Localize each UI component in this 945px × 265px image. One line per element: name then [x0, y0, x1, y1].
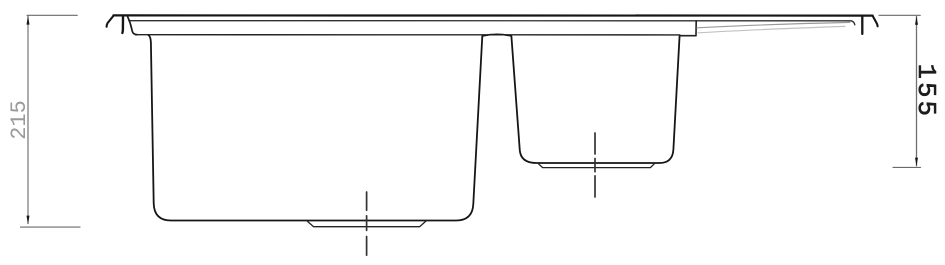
right rim downturn edge	[861, 16, 863, 34]
right rim rear lip hook	[873, 16, 878, 27]
right dimension extension line top	[879, 14, 920, 16]
left dimension line (215)	[27, 16, 29, 224]
right dimension arrow up	[915, 16, 918, 25]
drainer slope line upper	[697, 22, 850, 27]
left dimension arrow up	[27, 16, 30, 25]
sink rim second edge line	[129, 21, 855, 25]
left rim front lip hook	[107, 16, 114, 27]
right dimension arrow down	[915, 158, 918, 167]
left rim step to bowl	[128, 17, 138, 35]
left dimension arrow down	[27, 216, 30, 225]
left rim downturn edge	[121, 16, 124, 33]
left bowl base recess	[307, 221, 427, 227]
right bowl outline	[511, 35, 679, 163]
sink rim inner edge line	[136, 34, 680, 36]
svg-text:215: 215	[7, 100, 32, 140]
drainer slope line lower	[698, 26, 845, 32]
right bowl drain centerline	[594, 133, 596, 197]
right bowl base recess	[538, 163, 655, 167]
drainer step ledge	[680, 21, 696, 36]
right dimension extension line bottom	[893, 166, 921, 168]
left dimension extension line top	[27, 14, 77, 16]
sink rim top edge line	[113, 14, 872, 16]
bowl divider top	[483, 34, 512, 36]
left dimension extension line bottom	[21, 226, 81, 228]
left bowl drain centerline	[366, 192, 368, 255]
left bowl outline	[149, 35, 483, 220]
right dimension line (155)	[916, 17, 918, 166]
svg-text:155: 155	[911, 64, 940, 120]
